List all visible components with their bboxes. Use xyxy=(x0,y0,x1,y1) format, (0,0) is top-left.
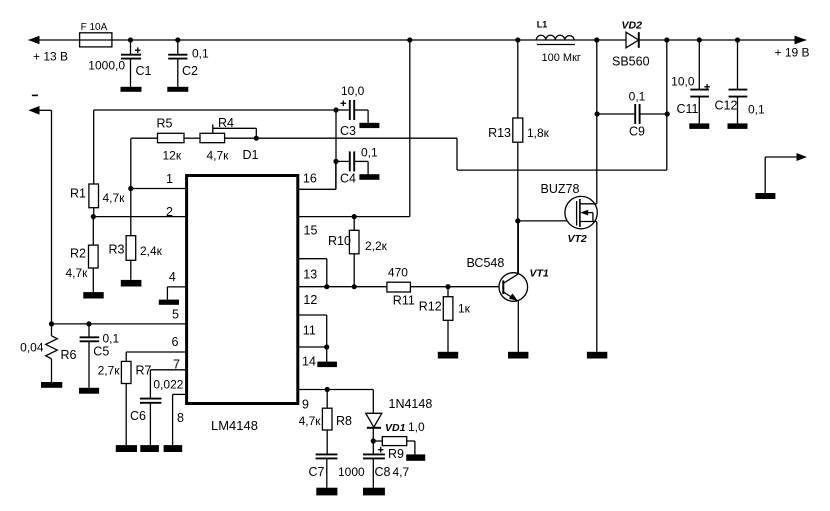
pin 9 xyxy=(298,390,374,412)
pin 2 xyxy=(93,205,186,219)
svg-text:+ 13 В: + 13 В xyxy=(33,50,68,64)
resistor R3 xyxy=(109,138,163,280)
wire C9 right vertical xyxy=(664,37,669,170)
svg-text:C5: C5 xyxy=(93,345,109,359)
svg-text:SB560: SB560 xyxy=(612,55,650,69)
ground pin 4 xyxy=(159,300,179,322)
svg-text:6: 6 xyxy=(172,335,179,349)
ground VT2 source xyxy=(587,352,607,359)
pin 15 xyxy=(298,217,410,238)
svg-text:R10: R10 xyxy=(328,234,351,248)
svg-text:C4: C4 xyxy=(340,172,356,186)
wire C3 branch vertical xyxy=(335,110,337,189)
svg-text:VT1: VT1 xyxy=(530,268,549,280)
pin 12 xyxy=(298,284,387,307)
svg-text:9: 9 xyxy=(302,397,309,411)
ground R3 xyxy=(121,280,142,287)
inductor L1 xyxy=(515,20,581,64)
capacitor C11 xyxy=(671,37,710,123)
resistor R11 xyxy=(387,266,503,308)
svg-text:4,7к: 4,7к xyxy=(103,191,126,205)
svg-text:C8: C8 xyxy=(375,465,391,479)
wire top rail to pin 15 xyxy=(407,37,412,216)
wire gate drive xyxy=(515,218,576,223)
svg-text:5: 5 xyxy=(172,308,179,322)
wire VT2 source to ground xyxy=(596,222,598,352)
transistor Q2 BUZ78 VT2 xyxy=(541,182,598,245)
svg-text:R7: R7 xyxy=(136,364,152,378)
resistor R10 xyxy=(328,214,388,289)
pin 5 xyxy=(52,323,187,325)
svg-text:1: 1 xyxy=(166,172,173,186)
ground C8 xyxy=(363,488,385,496)
ground C12 xyxy=(728,123,748,128)
capacitor C1 xyxy=(88,37,151,86)
svg-text:0,1: 0,1 xyxy=(361,145,378,159)
svg-text:F 10A: F 10A xyxy=(81,22,108,33)
pin 14 xyxy=(298,344,330,368)
capacitor C3 xyxy=(94,84,368,138)
svg-text:1,0: 1,0 xyxy=(408,420,425,434)
svg-text:1,8к: 1,8к xyxy=(527,126,550,140)
svg-text:D1: D1 xyxy=(243,148,259,162)
svg-text:VD1: VD1 xyxy=(385,422,406,434)
pin 1 xyxy=(131,172,186,189)
capacitor C8 xyxy=(363,441,410,488)
resistor R4 trimmer xyxy=(200,116,259,162)
svg-text:R3: R3 xyxy=(109,243,125,257)
svg-text:0,1: 0,1 xyxy=(748,103,765,117)
svg-text:4,7к: 4,7к xyxy=(66,266,89,280)
svg-text:4,7: 4,7 xyxy=(393,465,410,479)
svg-text:C2: C2 xyxy=(182,64,198,78)
svg-text:14: 14 xyxy=(302,355,316,369)
svg-text:R9: R9 xyxy=(388,447,404,461)
svg-text:C12: C12 xyxy=(715,99,738,113)
wire R13 to VT1 collector xyxy=(517,142,519,274)
node +19V output arrow xyxy=(775,36,810,60)
capacitor C6 xyxy=(130,370,184,445)
svg-text:R8: R8 xyxy=(336,414,352,428)
ground R7 xyxy=(116,445,137,452)
svg-text:0,1: 0,1 xyxy=(103,331,120,345)
ground R9 xyxy=(406,454,425,460)
svg-text:VD2: VD2 xyxy=(622,20,643,32)
ground C2 xyxy=(167,87,188,92)
wire minus rail vertical xyxy=(51,110,53,324)
svg-text:100 Мкг: 100 Мкг xyxy=(542,52,581,64)
fuse F 10A xyxy=(80,22,112,47)
pin 7 xyxy=(150,358,186,372)
svg-text:C1: C1 xyxy=(136,64,152,78)
ground pin 8 xyxy=(164,445,183,452)
svg-text:R13: R13 xyxy=(488,126,511,140)
ground R12 xyxy=(438,352,458,359)
svg-text:C3: C3 xyxy=(340,124,356,138)
wire drain vertical xyxy=(596,40,598,204)
svg-text:C7: C7 xyxy=(309,465,325,479)
resistor R9 xyxy=(371,420,425,461)
svg-text:2,7к: 2,7к xyxy=(98,364,121,378)
svg-text:ВС548: ВС548 xyxy=(467,256,505,270)
svg-text:L1: L1 xyxy=(537,20,548,30)
ground output common xyxy=(755,193,775,199)
svg-text:+ 19 В: + 19 В xyxy=(775,46,810,60)
resistor R1 xyxy=(70,110,125,217)
svg-text:4,7к: 4,7к xyxy=(299,414,322,428)
ground C5 xyxy=(79,388,99,394)
svg-text:1N4148: 1N4148 xyxy=(389,397,433,411)
svg-text:0,1: 0,1 xyxy=(192,47,209,61)
pin 8 xyxy=(173,394,187,445)
svg-text:R12: R12 xyxy=(419,299,442,313)
capacitor C4 xyxy=(333,145,378,185)
capacitor C5 xyxy=(80,321,120,388)
capacitor C7 xyxy=(309,454,366,487)
ground C6 xyxy=(140,445,159,452)
ground C3 xyxy=(359,123,379,128)
resistor R5 xyxy=(131,117,200,163)
wire top +13V rail xyxy=(29,39,806,41)
pin 11 xyxy=(298,315,327,347)
resistor R7 xyxy=(98,352,152,445)
svg-text:R4: R4 xyxy=(218,116,234,130)
svg-text:0,1: 0,1 xyxy=(629,90,646,104)
resistor R8 xyxy=(299,387,352,455)
svg-text:1к: 1к xyxy=(458,302,471,316)
capacitor C2 xyxy=(168,37,209,86)
svg-text:4,7к: 4,7к xyxy=(207,148,230,162)
pin 16 xyxy=(298,161,336,189)
svg-text:10,0: 10,0 xyxy=(671,75,695,89)
ground pin 14 xyxy=(317,362,337,368)
resistor R2 xyxy=(66,214,99,292)
svg-text:12к: 12к xyxy=(163,149,182,163)
svg-text:C11: C11 xyxy=(677,102,699,116)
svg-text:R2: R2 xyxy=(70,246,86,260)
node D1 label xyxy=(243,148,259,162)
pin 13 xyxy=(298,259,327,287)
pin 4 xyxy=(167,270,186,299)
svg-text:C6: C6 xyxy=(130,409,146,423)
svg-text:R11: R11 xyxy=(393,293,415,307)
svg-text:13: 13 xyxy=(303,267,317,281)
wire C4 to C9 link xyxy=(225,138,667,170)
node +13V input arrow xyxy=(28,36,68,64)
svg-text:LM4148: LM4148 xyxy=(211,418,258,433)
svg-text:C9: C9 xyxy=(629,124,645,138)
svg-text:10,0: 10,0 xyxy=(341,84,365,98)
ground R6 xyxy=(41,382,62,388)
ground C1 xyxy=(121,87,142,92)
svg-text:R6: R6 xyxy=(61,348,77,362)
svg-text:470: 470 xyxy=(388,266,408,280)
svg-text:7: 7 xyxy=(173,358,180,372)
capacitor C12 xyxy=(715,37,766,123)
svg-text:2,4к: 2,4к xyxy=(140,244,163,258)
svg-text:15: 15 xyxy=(304,224,318,238)
svg-text:R1: R1 xyxy=(70,187,86,201)
ground C7 xyxy=(316,488,337,496)
ground C11 xyxy=(689,123,709,128)
IC U1 LM4148 xyxy=(187,176,298,434)
node minus input arrow xyxy=(28,95,51,115)
ground C4 xyxy=(359,174,379,180)
svg-text:12: 12 xyxy=(303,293,317,307)
node output common arrow xyxy=(765,153,807,193)
diode VD2 SB560 xyxy=(594,20,649,69)
svg-text:R5: R5 xyxy=(157,117,173,131)
svg-text:1000: 1000 xyxy=(338,465,365,479)
svg-text:4: 4 xyxy=(169,270,176,284)
svg-text:0,022: 0,022 xyxy=(153,377,183,391)
svg-text:16: 16 xyxy=(303,172,317,186)
ground VT1 emitter xyxy=(508,352,528,359)
svg-text:8: 8 xyxy=(177,411,184,425)
transistor Q1 BC548 VT1 xyxy=(467,221,549,352)
svg-text:BUZ78: BUZ78 xyxy=(541,182,580,196)
svg-text:2,2к: 2,2к xyxy=(365,239,388,253)
resistor R13 xyxy=(488,40,550,142)
svg-text:2: 2 xyxy=(166,205,173,219)
pin 6 xyxy=(126,335,186,352)
diode VD1 1N4148 xyxy=(366,390,433,442)
capacitor C9 xyxy=(595,90,670,139)
svg-text:1000,0: 1000,0 xyxy=(88,58,125,72)
svg-text:VT2: VT2 xyxy=(568,233,587,245)
svg-text:0,04: 0,04 xyxy=(20,340,44,354)
resistor R6 shunt xyxy=(20,321,76,382)
ground R2 xyxy=(83,292,103,298)
svg-text:11: 11 xyxy=(303,323,316,337)
resistor R12 xyxy=(419,284,471,352)
